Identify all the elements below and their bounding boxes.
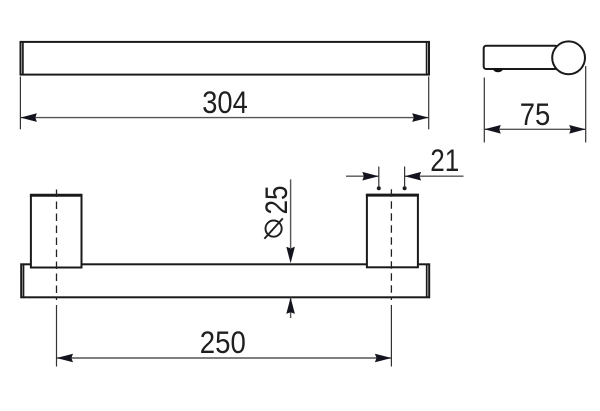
- bar front view left end cap line: [23, 264, 25, 298]
- svg-text:75: 75: [520, 96, 551, 132]
- svg-text:25: 25: [258, 186, 294, 215]
- svg-text:250: 250: [200, 324, 246, 360]
- arrowhead left 250: [57, 354, 74, 363]
- extension line right of 21 dim: [404, 167, 406, 187]
- left post dashed centerline: [56, 190, 58, 301]
- bar front view outline: [21, 264, 429, 297]
- side view set screw bump: [493, 68, 502, 72]
- arrowhead up at bar bottom: [286, 297, 295, 314]
- arrowhead right 250: [375, 354, 392, 363]
- right post dashed centerline: [390, 189, 392, 300]
- diameter dimension line lower: [290, 298, 292, 319]
- right post front view: [367, 195, 418, 267]
- label 250: [200, 324, 246, 360]
- node dot right 21: [403, 186, 407, 190]
- extension line left of 21 dim: [378, 167, 380, 187]
- side view post body: [484, 46, 558, 69]
- extension line left of 250 dim: [56, 305, 58, 367]
- bar top view right end cap line: [426, 42, 428, 76]
- svg-text:21: 21: [430, 142, 459, 178]
- arrowhead right-pointing at left of 21: [362, 172, 379, 181]
- label 21: [430, 142, 459, 178]
- arrowhead left 304: [20, 113, 37, 122]
- diameter symbol circle: [264, 218, 282, 238]
- dimension line 304: [21, 117, 428, 119]
- right post top thick edge: [366, 194, 419, 197]
- extension line right of 250 dim: [390, 305, 392, 367]
- arrowhead right 304: [412, 113, 429, 122]
- dimension line 250: [57, 357, 391, 359]
- arrowhead left-pointing at right of 21: [405, 172, 422, 181]
- side view bar circle: [552, 41, 585, 74]
- dimension line 21 right tail: [405, 175, 464, 177]
- left post front view: [31, 196, 82, 268]
- arrowhead down at bar top: [286, 247, 295, 263]
- label 304: [202, 84, 248, 120]
- dimension line 21 left tail: [346, 175, 379, 177]
- extension line left of 304 dim: [19, 77, 21, 130]
- left post top thick edge: [30, 194, 83, 197]
- dimension line 75: [485, 128, 585, 130]
- arrowhead left 75: [484, 125, 501, 134]
- arrowhead right 75: [569, 125, 586, 134]
- extension line right of 75 dim: [585, 66, 587, 143]
- extension line left of 75 dim: [483, 78, 485, 143]
- bar front view right end cap line: [426, 264, 428, 298]
- label 75: [520, 96, 551, 132]
- bar top view left end cap line: [22, 42, 24, 76]
- label 25 rotated: [258, 186, 294, 215]
- node dot left 21: [377, 186, 381, 190]
- svg-text:304: 304: [202, 84, 248, 120]
- extension line right of 304 dim: [428, 77, 430, 130]
- bar top view outline: [21, 42, 430, 75]
- diameter dimension line upper: [290, 179, 292, 248]
